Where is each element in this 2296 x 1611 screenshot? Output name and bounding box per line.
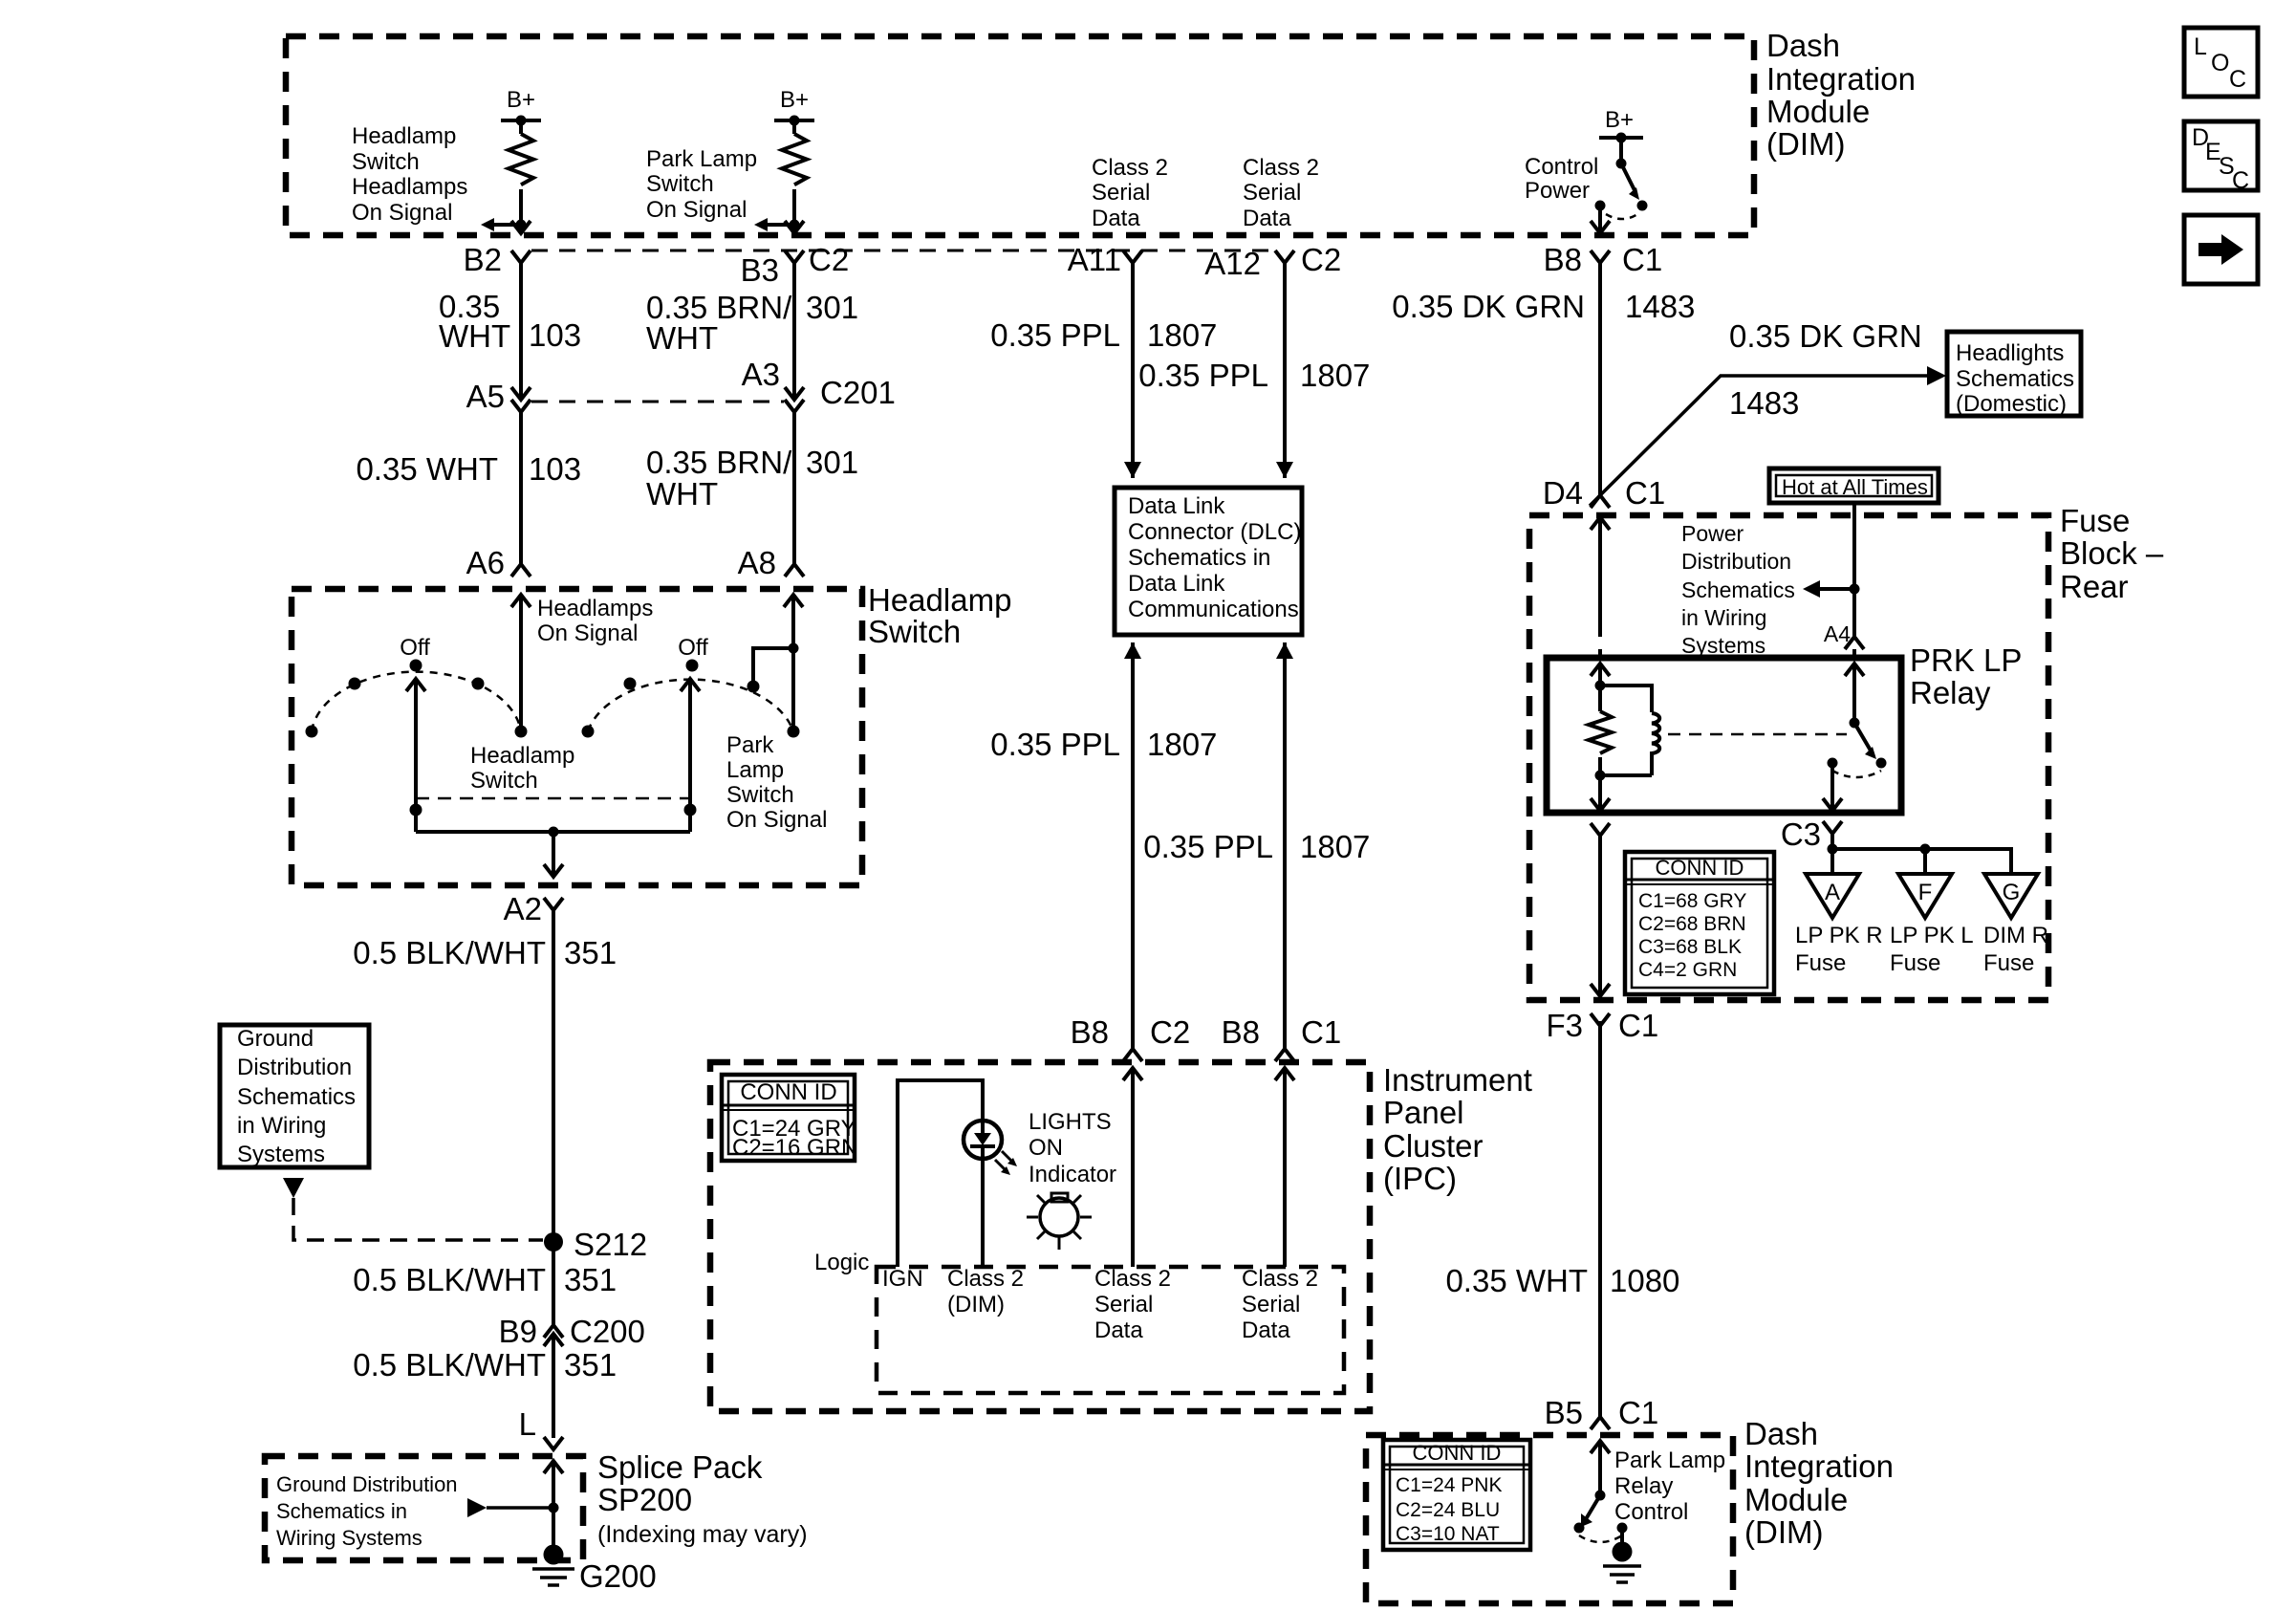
connector fork F3 [1591, 1013, 1610, 1026]
blade park lamp relay control [1586, 1495, 1600, 1519]
junction dot A2 takeoff [549, 827, 559, 838]
svg-text:Off: Off [678, 635, 708, 661]
svg-text:Data: Data [1092, 206, 1140, 231]
svg-text:C2: C2 [1150, 1014, 1190, 1050]
svg-text:O: O [2211, 50, 2229, 76]
svg-text:C1: C1 [1618, 1008, 1658, 1043]
wire headlamp signal branch left [493, 223, 521, 227]
label C200 [570, 1314, 645, 1349]
arrow up D4 inside fuse block [1591, 517, 1610, 530]
label C2 at A12 [1301, 242, 1341, 277]
label B2 [464, 242, 502, 277]
wire class2 A12 to DLC [1283, 263, 1287, 478]
contact dot headlamp arc right end [515, 726, 528, 738]
contact dot park Off [686, 660, 699, 672]
svg-text:Switch: Switch [470, 768, 538, 794]
label C4=2 GRN [1638, 959, 1737, 981]
label A4 [1824, 621, 1851, 646]
table CONN ID bottom DIM [1383, 1440, 1530, 1550]
wire 301 C201 to A8 [792, 412, 796, 564]
svg-text:Headlamps: Headlamps [537, 596, 653, 621]
B+ rail headlamp [501, 119, 541, 122]
wire 103 B2 to A5 [519, 263, 523, 400]
connector fork C201 [785, 400, 804, 412]
ground symbol G200 [532, 1569, 574, 1585]
label B+ park lamp pullup [780, 87, 809, 113]
svg-text:Switch: Switch [726, 782, 794, 808]
svg-text:A6: A6 [466, 545, 505, 580]
svg-text:103: 103 [529, 451, 581, 487]
label B3 [741, 252, 779, 288]
label 301 lower [806, 445, 858, 480]
wire B+ to resistor R-headlamp [519, 120, 523, 134]
svg-text:Park Lamp: Park Lamp [646, 146, 757, 172]
wire coil bottom lead [1598, 757, 1602, 811]
lamp symbol circle [1040, 1198, 1078, 1236]
module box Splice Pack SP200 [265, 1456, 583, 1560]
svg-text:351: 351 [564, 1347, 617, 1382]
label 351 second [564, 1262, 617, 1297]
svg-text:CONN ID: CONN ID [740, 1079, 836, 1105]
svg-text:Power: Power [1525, 178, 1590, 204]
svg-text:Class 2: Class 2 [1242, 1266, 1318, 1292]
svg-text:Schematics in: Schematics in [1128, 545, 1270, 571]
arrow up relay switch common [1845, 664, 1864, 676]
label A12 [1204, 246, 1261, 281]
module box Headlamp Switch [292, 589, 862, 885]
svg-text:On Signal: On Signal [726, 807, 827, 833]
switch blade control power [1621, 163, 1635, 190]
svg-text:0.35 WHT: 0.35 WHT [356, 451, 498, 487]
LED emission arrow 1 [1002, 1151, 1017, 1166]
label C2 at B3 [809, 242, 849, 277]
wiper arrow park lamp switch [681, 679, 700, 832]
wire DLC to IPC B8 C1 [1283, 642, 1287, 1049]
connector fork B8 C2 IPC [1123, 1049, 1142, 1061]
box Hot at All Times [1769, 468, 1939, 503]
label Headlamp Switch rotary [470, 743, 574, 794]
interconnect dashed line C201 [531, 401, 784, 403]
svg-text:in Wiring: in Wiring [1681, 605, 1766, 630]
label Class 2 Serial Data right [1242, 1266, 1318, 1343]
arrow up B8 C2 inside IPC [1123, 1068, 1142, 1080]
switch pivot dot control power [1616, 159, 1627, 169]
svg-text:B8: B8 [1544, 242, 1582, 277]
splice dot S212 [544, 1232, 563, 1252]
relay resistor [1589, 711, 1612, 753]
svg-text:B8: B8 [1071, 1014, 1109, 1050]
svg-text:0.35 PPL: 0.35 PPL [990, 317, 1120, 353]
svg-text:Data Link: Data Link [1128, 493, 1225, 519]
label IGN [882, 1266, 923, 1292]
box Data Link Connector DLC [1115, 488, 1302, 635]
LED wire through [981, 1080, 985, 1134]
wire BLK WHT S212 to B9 [552, 1242, 555, 1325]
svg-text:C3=10 NAT: C3=10 NAT [1396, 1523, 1500, 1545]
label C1 at F3 [1618, 1008, 1658, 1043]
svg-text:Integration: Integration [1744, 1448, 1894, 1484]
label 0.35 DK GRN [1392, 289, 1585, 324]
arrow up L inside splice pack [544, 1461, 563, 1473]
B+ rail park lamp [774, 119, 814, 122]
svg-text:Headlamps: Headlamps [352, 174, 467, 200]
pivot dot headlamp wiper [410, 804, 422, 816]
connector fork A4 [1845, 637, 1864, 649]
wire A6 arrow to rotary common [519, 595, 523, 731]
label C3=68 BLK [1638, 936, 1742, 958]
label Class 2 Serial Data A11 [1092, 155, 1168, 231]
junction dot B+ park [790, 116, 800, 126]
svg-text:Systems: Systems [1681, 633, 1765, 658]
label B8 at IPC C2 [1071, 1014, 1109, 1050]
wire A2 down [552, 832, 555, 877]
svg-text:0.5 BLK/WHT: 0.5 BLK/WHT [353, 1347, 546, 1382]
label 0.35 PPL lower [1143, 829, 1273, 864]
wire B+ to switch pivot [1619, 138, 1623, 163]
label Headlights Schematics Domestic [1956, 340, 2074, 417]
label B8 top [1544, 242, 1582, 277]
label Ground Distribution Schematics in Wiring Systems splice [276, 1472, 458, 1550]
svg-text:0.35 PPL: 0.35 PPL [990, 727, 1120, 762]
dashed arc relay switch [1832, 771, 1881, 777]
svg-text:A: A [1825, 880, 1840, 905]
svg-text:301: 301 [806, 445, 858, 480]
label C2=68 BRN [1638, 913, 1746, 935]
fuse F triangle [1898, 874, 1952, 918]
label 0.35 DK GRN branch [1729, 318, 1922, 354]
table CONN ID fuse block [1625, 852, 1774, 994]
svg-text:WHT: WHT [439, 318, 510, 354]
label Headlamps On Signal [537, 596, 653, 646]
contact dot park relay right [1617, 1523, 1628, 1534]
svg-text:A2: A2 [504, 891, 542, 926]
svg-text:(DIM): (DIM) [947, 1292, 1005, 1317]
svg-text:C1: C1 [1618, 1395, 1658, 1430]
svg-text:C1=24 PNK: C1=24 PNK [1396, 1474, 1502, 1496]
label CONN ID title IPC [740, 1079, 836, 1105]
svg-text:Control: Control [1525, 154, 1598, 180]
svg-text:A5: A5 [466, 379, 505, 414]
connector fork B8 C1 IPC [1275, 1049, 1294, 1061]
connector fork A6 [511, 564, 531, 577]
pivot dot park wiper [684, 804, 697, 816]
label C2=16 GRN [732, 1135, 857, 1161]
rotary arc headlamp switch [312, 672, 521, 731]
label 0.35 BRN/ upper [646, 290, 792, 356]
contact dot control power left [1595, 201, 1606, 211]
svg-text:1080: 1080 [1610, 1263, 1679, 1298]
svg-text:Serial: Serial [1243, 180, 1301, 206]
dashed arc control power switch [1606, 212, 1640, 219]
label 0.35 WHT lower [356, 451, 498, 487]
label S212 [574, 1227, 647, 1262]
label 1080 [1610, 1263, 1679, 1298]
arrow down F3 inside fuse block [1591, 984, 1610, 996]
wire B5 to park lamp relay switch [1598, 1441, 1602, 1495]
svg-text:1807: 1807 [1300, 358, 1370, 393]
box Headlights Schematics Domestic [1947, 332, 2081, 416]
label Headlamp Switch module [868, 582, 1011, 649]
svg-text:SP200: SP200 [597, 1482, 692, 1517]
wire DK GRN B8 to D4 [1598, 263, 1602, 495]
svg-text:On Signal: On Signal [537, 620, 638, 646]
svg-text:CONN ID: CONN ID [1656, 856, 1744, 880]
svg-text:Panel: Panel [1383, 1095, 1463, 1130]
svg-text:351: 351 [564, 935, 617, 970]
junction dot fuse bus at F [1920, 844, 1931, 855]
fuse A triangle [1806, 874, 1859, 918]
svg-text:A3: A3 [742, 357, 780, 392]
svg-text:S212: S212 [574, 1227, 647, 1262]
label Off headlamp switch [400, 635, 430, 661]
junction dot headlamp on signal [516, 220, 527, 230]
gang dashed line rotary switches [416, 797, 690, 800]
svg-text:(Indexing may vary): (Indexing may vary) [597, 1521, 808, 1548]
label Data Link Connector note [1128, 493, 1301, 622]
label PRK LP Relay [1910, 642, 2022, 710]
svg-text:C2=68 BRN: C2=68 BRN [1638, 913, 1746, 935]
label Class 2 (DIM) [947, 1266, 1024, 1317]
label C1=24 PNK [1396, 1474, 1502, 1496]
svg-text:Schematics: Schematics [237, 1084, 356, 1110]
label 0.35 WHT 1080 [1445, 1263, 1588, 1298]
wire B+ to resistor R-park [792, 120, 796, 134]
box DESC [2184, 121, 2258, 190]
svg-text:C2: C2 [809, 242, 849, 277]
svg-text:Switch: Switch [352, 149, 420, 175]
label 0.5 BLK/WHT second [353, 1262, 546, 1297]
svg-text:1483: 1483 [1729, 385, 1799, 421]
svg-text:Fuse: Fuse [1890, 950, 1940, 976]
junction dot A4 wire branch [1850, 584, 1860, 595]
label A11 [1068, 242, 1121, 277]
wire coil parallel top [1600, 686, 1652, 712]
junction dot B+ control [1616, 133, 1627, 143]
svg-text:A8: A8 [738, 545, 776, 580]
svg-text:Ground Distribution: Ground Distribution [276, 1472, 458, 1496]
arrow down at A5 [511, 387, 531, 400]
svg-text:Distribution: Distribution [237, 1055, 352, 1080]
label Park Lamp Relay Control [1614, 1448, 1725, 1525]
dashed link coil to switch [1668, 733, 1847, 736]
label Class 2 Serial Data left [1094, 1266, 1171, 1343]
svg-text:B3: B3 [741, 252, 779, 288]
label B9 [499, 1314, 537, 1349]
svg-text:Fuse: Fuse [1795, 950, 1846, 976]
lamp rays [1027, 1195, 1092, 1250]
label fuse G letter [2003, 880, 2021, 905]
label C1=24 GRY [732, 1116, 856, 1142]
contact dot relay right [1876, 758, 1887, 769]
arrow down B2 inside DIM [511, 221, 531, 233]
svg-text:Serial: Serial [1094, 1292, 1153, 1317]
module box Dash Integration Module bottom [1366, 1435, 1733, 1603]
svg-text:(Domestic): (Domestic) [1956, 391, 2067, 417]
relay switch blade [1854, 723, 1871, 751]
wire B8 C1 to logic [1283, 1068, 1287, 1267]
label 1807 mid [1147, 727, 1217, 762]
contact dot headlamp Off [410, 660, 422, 672]
svg-text:(IPC): (IPC) [1383, 1161, 1457, 1196]
svg-text:Ground: Ground [237, 1026, 314, 1052]
svg-text:CONN ID: CONN ID [1413, 1441, 1502, 1465]
wire BLK WHT C200 to L [552, 1334, 555, 1438]
arrowhead park relay blade [1581, 1513, 1592, 1527]
svg-text:WHT: WHT [646, 320, 718, 356]
svg-text:LP PK L: LP PK L [1890, 923, 1974, 948]
arrow up B8 C1 inside IPC [1275, 1068, 1294, 1080]
svg-text:ON: ON [1029, 1135, 1063, 1161]
arrowhead into DLC A12 [1276, 462, 1293, 478]
dashed link ground note to S212 [293, 1198, 543, 1240]
arrowhead out of DLC A11 [1124, 642, 1141, 659]
label 0.5 BLK/WHT first [353, 935, 546, 970]
label C1 at D4 [1625, 475, 1665, 511]
svg-text:Data: Data [1243, 206, 1291, 231]
junction dot A8 branch [789, 643, 799, 654]
wire resistor to node park [792, 189, 796, 234]
label A3 [742, 357, 780, 392]
contact dot park relay left [1574, 1523, 1585, 1534]
svg-text:DIM R: DIM R [1983, 923, 2048, 948]
arrow up A6 inside switch [511, 595, 531, 607]
svg-text:Integration: Integration [1766, 61, 1916, 97]
label fuse A letter [1825, 880, 1840, 905]
wire L to splice junction [552, 1461, 555, 1555]
wiper arrow headlamp switch [406, 679, 425, 832]
contact dot control power right [1637, 201, 1648, 211]
svg-text:D4: D4 [1543, 475, 1583, 511]
svg-text:C4=2 GRN: C4=2 GRN [1638, 959, 1737, 981]
label Class 2 Serial Data A12 [1243, 155, 1319, 231]
wire resistor to node headlamp [519, 189, 523, 234]
svg-text:C1: C1 [1625, 475, 1665, 511]
label Headlamp Switch Headlamps On Signal [352, 123, 467, 226]
svg-text:F: F [1918, 880, 1933, 905]
svg-text:0.5 BLK/WHT: 0.5 BLK/WHT [353, 935, 546, 970]
arrow up A8 inside switch [784, 595, 803, 607]
arrow down at C201 [785, 387, 804, 400]
label 1807 second [1300, 358, 1370, 393]
wire C3 to fuse bus [1830, 834, 1834, 874]
svg-text:103: 103 [529, 317, 581, 353]
svg-text:On Signal: On Signal [352, 200, 452, 226]
svg-text:Data Link: Data Link [1128, 571, 1225, 597]
label D4 [1543, 475, 1583, 511]
label Instrument Panel Cluster IPC [1383, 1062, 1532, 1196]
svg-text:0.35 DK GRN: 0.35 DK GRN [1729, 318, 1922, 354]
label B+ headlamp pullup [507, 87, 535, 113]
wire relay switch common [1852, 664, 1856, 723]
contact dot park arc left end [582, 726, 595, 738]
connector fork D4 C1 [1591, 495, 1610, 508]
arrow left headlamp on signal [481, 218, 494, 231]
svg-text:C201: C201 [820, 375, 896, 410]
svg-text:Dash: Dash [1744, 1416, 1818, 1451]
connector fork A8 [785, 564, 804, 577]
label Power Distribution Schematics in Wiring Systems [1681, 521, 1795, 658]
label 0.5 BLK/WHT third [353, 1347, 546, 1382]
label 351 third [564, 1347, 617, 1382]
svg-text:351: 351 [564, 1262, 617, 1297]
svg-text:Power: Power [1681, 521, 1744, 546]
label C2=24 BLU [1396, 1499, 1500, 1521]
LED indicator circle [964, 1121, 1002, 1159]
svg-text:Schematics in: Schematics in [276, 1499, 407, 1523]
connector fork B2 [511, 250, 531, 263]
svg-text:1807: 1807 [1147, 317, 1217, 353]
label Splice Pack SP200 Indexing may vary [597, 1449, 808, 1548]
label F3 [1546, 1008, 1583, 1043]
label 0.35 WHT upper [439, 289, 510, 354]
label C1=68 GRY [1638, 890, 1746, 912]
connector fork relay coil out [1591, 823, 1610, 836]
contact dot headlamp arc mid-right [472, 678, 485, 690]
dashed arc park lamp relay switch [1579, 1535, 1622, 1542]
svg-text:Splice Pack: Splice Pack [597, 1449, 763, 1485]
svg-text:0.35 WHT: 0.35 WHT [1445, 1263, 1588, 1298]
label Dash Integration Module (DIM) top-right [1766, 28, 1916, 162]
wire control power to B8 [1598, 206, 1602, 234]
arrow down B3 inside DIM [785, 221, 804, 233]
svg-text:Park Lamp: Park Lamp [1614, 1448, 1725, 1473]
label LOC letters [2194, 33, 2246, 93]
svg-text:G200: G200 [579, 1558, 657, 1594]
svg-text:B5: B5 [1545, 1395, 1583, 1430]
relay box PRK LP [1547, 658, 1901, 813]
connector fork B8 C1 [1591, 250, 1610, 263]
junction dot coil bottom [1595, 771, 1606, 781]
contact dot park arc right end [788, 726, 800, 738]
branch diagonal to headlights [1590, 376, 1935, 506]
svg-text:C: C [2229, 66, 2246, 93]
connector fork A5 [511, 400, 531, 412]
svg-text:0.35 PPL: 0.35 PPL [1138, 358, 1268, 393]
wire rotary common bus [416, 830, 690, 834]
arrow up C200 lower [544, 1334, 563, 1346]
label C2 at IPC [1150, 1014, 1190, 1050]
svg-text:Headlamp: Headlamp [470, 743, 574, 769]
wire A4 to relay [1852, 649, 1856, 658]
svg-text:(DIM): (DIM) [1766, 126, 1845, 162]
junction dot B+ headlamp [516, 116, 527, 126]
svg-text:Fuse: Fuse [1983, 950, 2034, 976]
connector fork L [544, 1437, 563, 1449]
arrow down coil output [1591, 798, 1610, 811]
label B5 [1545, 1395, 1583, 1430]
svg-text:Class 2: Class 2 [1243, 155, 1319, 181]
wire F fuse stub [1923, 849, 1927, 874]
wire DLC to IPC B8 C2 [1131, 642, 1135, 1049]
ground dot G200 [544, 1545, 564, 1565]
contact dot headlamp arc left end [306, 726, 318, 738]
label 0.35 PPL top [990, 317, 1120, 353]
svg-text:Switch: Switch [646, 171, 714, 197]
svg-text:Hot at All Times: Hot at All Times [1782, 475, 1928, 499]
label Logic [814, 1250, 869, 1275]
contact dot park arc mid-left [624, 678, 637, 690]
svg-text:B9: B9 [499, 1314, 537, 1349]
label LP PK L Fuse [1890, 923, 1974, 976]
label 0.35 PPL second [1138, 358, 1268, 393]
svg-text:0.35 BRN/: 0.35 BRN/ [646, 445, 792, 480]
B+ rail control power [1599, 136, 1643, 140]
svg-text:Off: Off [400, 635, 430, 661]
junction dot coil top [1595, 681, 1606, 691]
svg-text:Distribution: Distribution [1681, 549, 1791, 574]
wire BLK WHT A2 to S212 [552, 910, 555, 1242]
label Park Lamp Switch On Signal [646, 146, 757, 223]
